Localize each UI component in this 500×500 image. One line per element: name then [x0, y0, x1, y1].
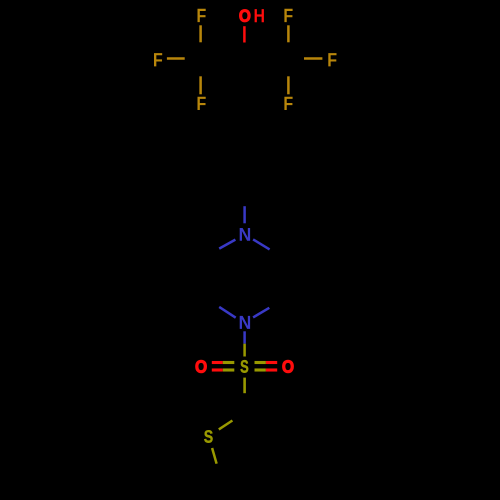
double bond S1=O1 upper line (sulfur half)	[223, 361, 235, 364]
bond S2-C2 thiophene ring (sulfur half)	[219, 421, 233, 430]
bond F4-C3 (fluorine half)	[287, 25, 290, 42]
bond CH3-N1 (nitrogen half)	[243, 206, 246, 223]
fluorine label F2 left	[154, 53, 162, 66]
fluorine label F5 right	[328, 53, 336, 66]
hydroxyl H of OH label	[255, 9, 264, 22]
bond F5-C3 (fluorine half)	[304, 57, 322, 60]
sulfonyl oxygen label O1 left	[196, 360, 207, 372]
bond N1-C ring upper-right (nitrogen half)	[253, 239, 270, 249]
sulfonyl sulfur label S1	[241, 360, 249, 372]
double bond S1=O2 upper line (sulfur half)	[255, 361, 266, 364]
bond F1-C1 (fluorine half)	[199, 25, 202, 42]
double bond S1=O1 upper line (oxygen half)	[212, 361, 223, 364]
thiophene sulfur label S2	[204, 430, 212, 442]
double bond S1=O2 lower line (sulfur half)	[255, 368, 266, 371]
hydroxyl O of OH label	[240, 10, 251, 22]
bond N2-C ring lower-right (nitrogen half)	[253, 308, 269, 318]
bond N1-C ring upper-left (nitrogen half)	[219, 240, 235, 249]
bond O-C2 (oxygen half)	[243, 26, 246, 42]
fluorine label F1 top-left	[198, 9, 206, 22]
bond N2-S1 (nitrogen half)	[243, 331, 246, 343]
double bond S1=O1 lower line (sulfur half)	[223, 368, 235, 371]
double bond S1=O2 lower line (oxygen half)	[266, 368, 277, 371]
bond N2-C ring lower-left (nitrogen half)	[219, 307, 236, 318]
bond S1-C2 thiophene (sulfur half)	[243, 378, 246, 394]
bond F3-C1 (fluorine half)	[199, 76, 202, 94]
bond S2-C5 thiophene ring (sulfur half)	[212, 448, 217, 464]
bond F2-C1 (fluorine half)	[167, 57, 185, 60]
fluorine label F6 bottom-right	[284, 97, 292, 110]
sulfonyl oxygen label O2 right	[283, 360, 294, 372]
bond N2-S1 (sulfur half)	[243, 344, 246, 357]
fluorine label F3 bottom-left	[198, 97, 206, 110]
piperazine nitrogen label N1	[240, 228, 250, 241]
double bond S1=O1 lower line (oxygen half)	[212, 368, 223, 371]
bond F6-C3 (fluorine half)	[287, 76, 290, 94]
piperazine nitrogen label N2	[240, 316, 250, 329]
fluorine label F4 top-right	[284, 9, 292, 22]
double bond S1=O2 upper line (oxygen half)	[266, 361, 277, 364]
